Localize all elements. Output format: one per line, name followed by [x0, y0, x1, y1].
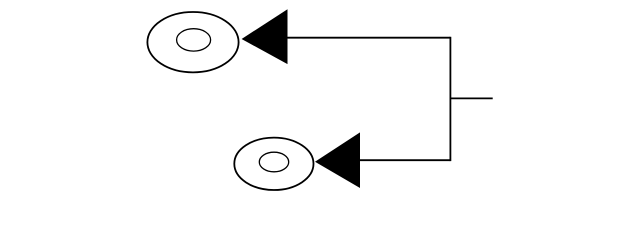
node A outer ellipse: [147, 12, 238, 72]
wire from arrowhead B to bus: [360, 159, 450, 161]
node B outer ellipse: [234, 138, 313, 190]
stub wire from bus: [450, 97, 492, 99]
arrowhead to node A: [242, 9, 288, 64]
node A inner ellipse: [177, 29, 211, 51]
node B inner ellipse: [259, 152, 288, 172]
bus vertical wire: [449, 37, 451, 161]
wire from arrowhead A to bus: [288, 37, 451, 39]
arrowhead to node B: [315, 132, 360, 188]
